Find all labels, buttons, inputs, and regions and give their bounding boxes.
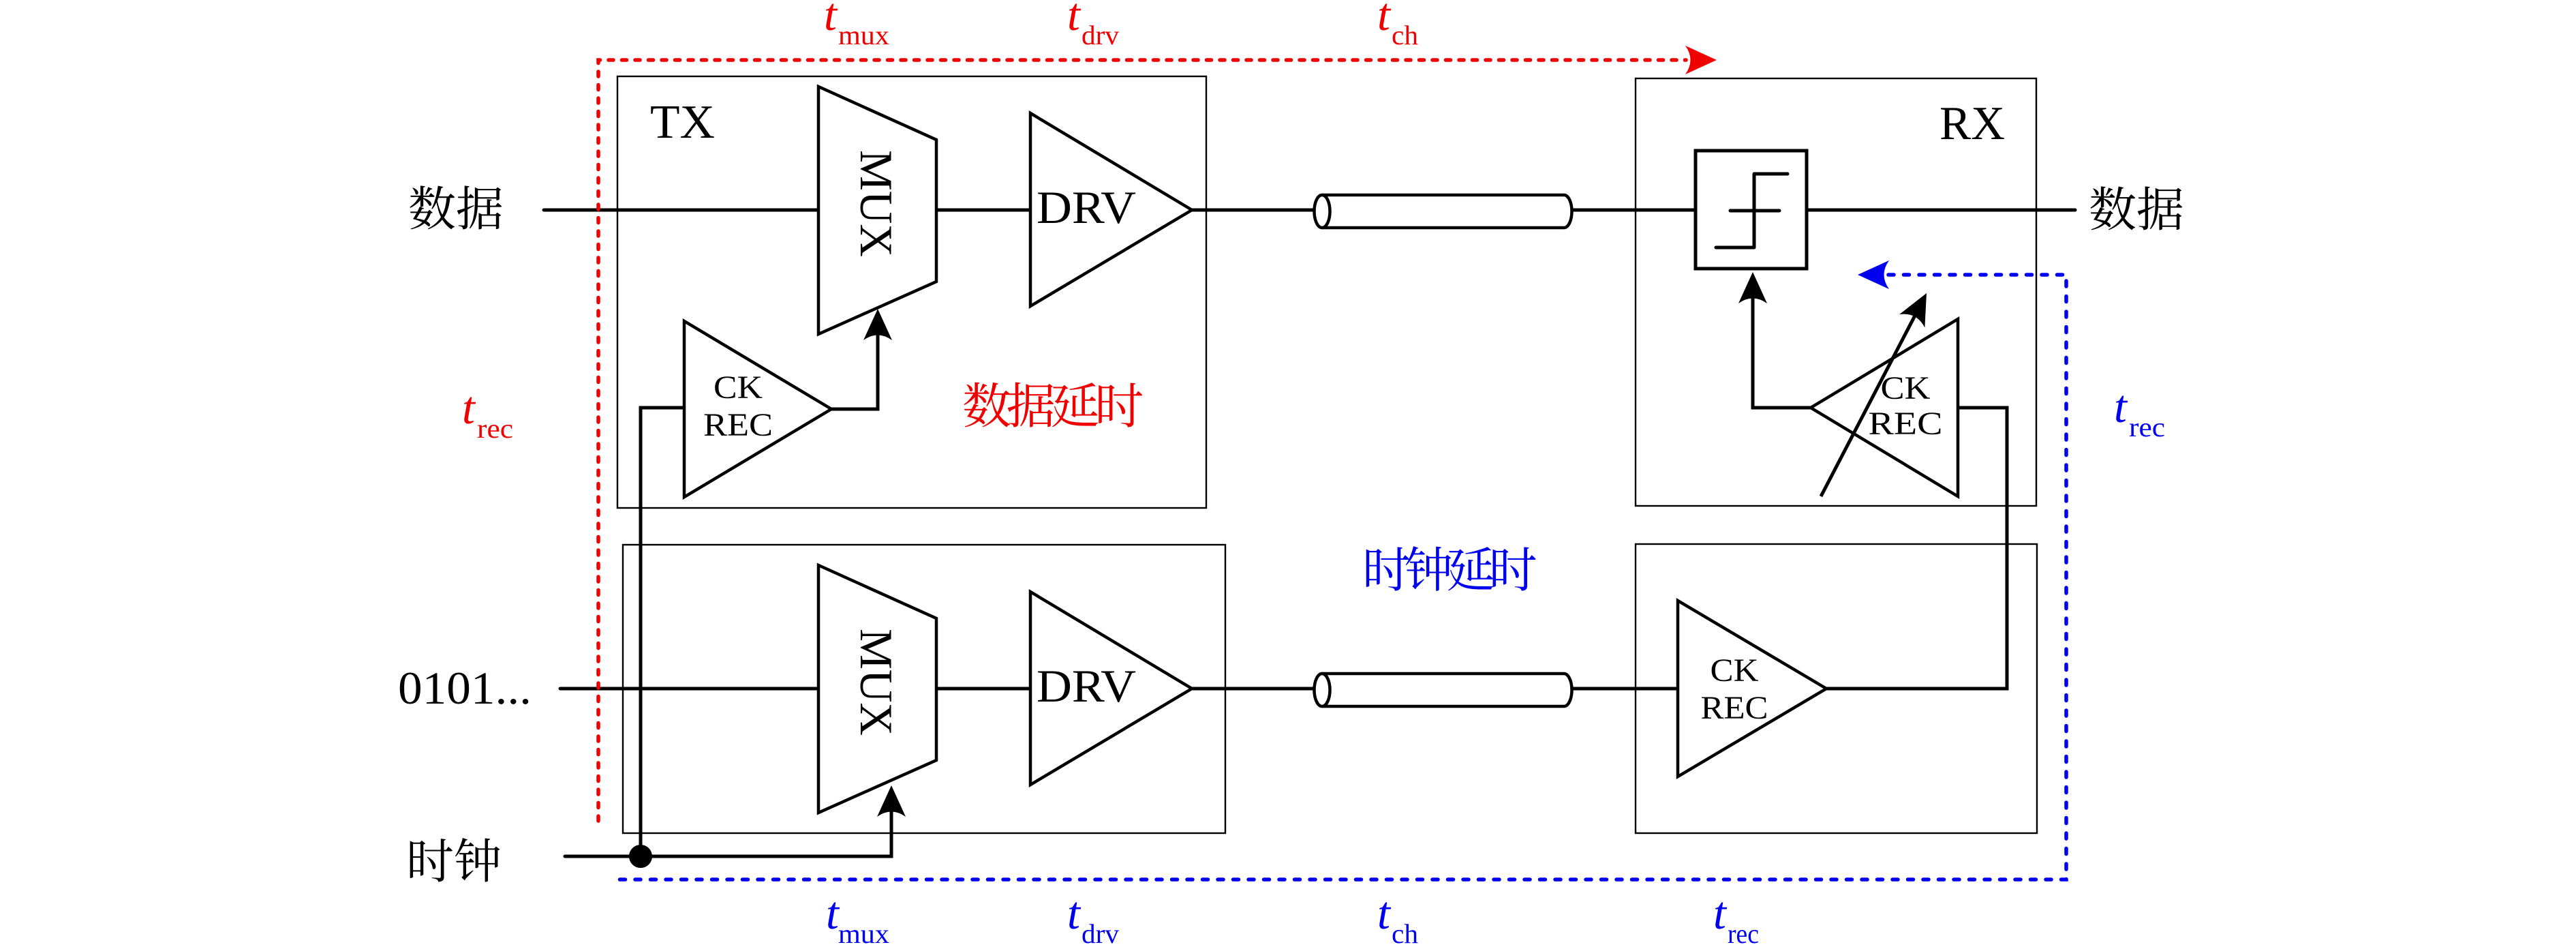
svg-text:DRV: DRV [1037,181,1136,233]
svg-text:MUX: MUX [850,150,902,257]
TX box (upper data lane) [617,76,1206,508]
svg-text:RX: RX [1939,97,2005,150]
arrowhead: variable arrow (up-right) [1899,286,1939,327]
wire: DRV U7 output through channel to CK REC U8 [1192,687,1678,691]
variable arrow shaft through CK REC U5 [1821,313,1916,496]
slicer U4 hysteresis symbol [1716,174,1788,247]
MUX U6 trapezoid [818,565,936,813]
TX box (lower clock lane) [623,545,1225,833]
wire: CK REC U5 output to slicer U4 clock input [1753,286,1811,408]
wire: clock feed up to CK REC U3 input [641,408,684,856]
RX box (upper data lane) [1636,78,2036,506]
wire: 0101 input line to MUX U6 [560,687,818,691]
svg-text:drv: drv [1082,20,1119,50]
svg-text:0101...: 0101... [398,662,532,714]
wire: data input line (数据 to MUX U1) [544,209,818,212]
wire: CK REC U8 output up to CK REC U5 output node [1826,408,2007,689]
label 数据延时 (red, data delay) [964,382,1142,427]
svg-text:t: t [2114,380,2128,432]
svg-text:drv: drv [1082,918,1119,947]
CK REC U5 triangle (points left) [1811,319,1958,496]
RX box (lower clock lane) [1636,544,2037,833]
svg-text:REC: REC [1701,690,1768,726]
svg-text:t: t [1067,887,1082,939]
channel TL1 left ellipse [1315,195,1330,228]
svg-text:mux: mux [838,20,889,50]
svg-text:t: t [1377,887,1392,939]
arrowhead: MUX U6 select (up) [877,785,906,817]
wire: MUX U1 output to DRV U2 [936,209,1030,212]
wire: MUX U6 output to DRV U7 [936,687,1030,691]
svg-text:ch: ch [1392,918,1418,947]
svg-text:mux: mux [838,918,889,947]
channel TL2 left ellipse [1315,674,1330,706]
blue dashed clock-delay path [614,275,2066,880]
arrowhead: slicer U4 clock input (up) [1738,272,1767,303]
arrowhead: blue clock-delay (left) [1858,260,1889,289]
red dashed data-delay path [598,60,1686,821]
slicer U4 threshold line [1730,209,1779,213]
svg-text:MUX: MUX [850,629,902,736]
svg-text:ch: ch [1392,20,1418,50]
wire: clock input line (时钟) [565,792,891,856]
label 时钟 (clock input) [410,838,500,882]
wire: DRV U2 output through channel to slicer U4 [1192,209,1696,212]
svg-text:CK: CK [714,370,763,406]
MUX U1 trapezoid [818,87,936,334]
label 数据 (right data output) [2090,186,2182,230]
wire: slicer U4 output to 数据 out [1807,209,2075,212]
svg-text:t: t [1377,0,1392,40]
svg-text:rec: rec [1728,918,1759,947]
svg-text:t: t [1067,0,1082,40]
svg-text:DRV: DRV [1037,660,1136,712]
svg-text:CK: CK [1881,370,1931,406]
junction dot on clock line [629,845,652,868]
svg-text:CK: CK [1711,652,1759,689]
slicer U4 box [1696,151,1807,269]
CK REC U3 triangle [684,321,831,497]
DRV U7 triangle [1030,592,1192,785]
svg-text:t: t [462,382,476,434]
CK REC U8 triangle [1678,601,1826,777]
channel TL2 cylinder body [1322,674,1572,706]
DRV U2 triangle [1030,113,1192,306]
svg-text:t: t [824,0,838,40]
svg-text:t: t [1713,887,1728,939]
svg-text:rec: rec [2129,412,2165,442]
label 时钟延时 (blue, clock delay) [1366,546,1536,590]
label 数据 (left data input) [410,185,502,229]
arrowhead: MUX U1 select (up) [863,309,892,340]
svg-text:REC: REC [1869,406,1943,442]
svg-text:rec: rec [477,413,513,444]
svg-text:REC: REC [703,407,773,443]
svg-text:TX: TX [650,96,715,149]
arrowhead: red data-delay (right) [1685,46,1717,74]
wire: CK REC U3 output to MUX U1 select [831,316,878,409]
channel TL1 cylinder body [1322,195,1572,228]
